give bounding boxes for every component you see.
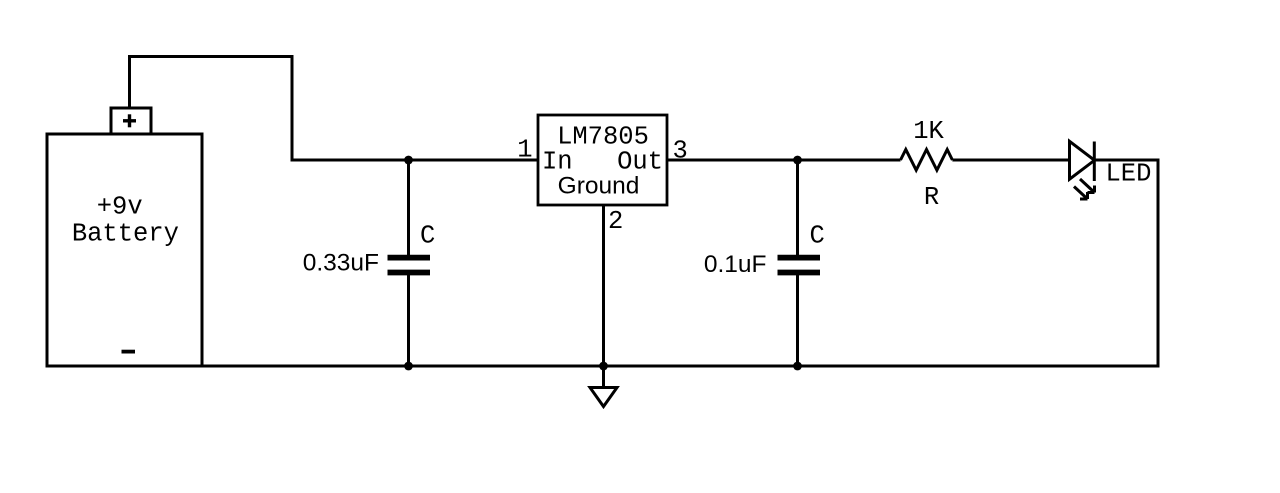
svg-text:2: 2 (608, 207, 623, 236)
svg-text:C: C (810, 222, 825, 251)
svg-text:1: 1 (517, 136, 532, 165)
svg-text:Battery: Battery (72, 220, 179, 249)
svg-text:0.1uF: 0.1uF (704, 251, 767, 278)
svg-text:0.33uF: 0.33uF (303, 250, 379, 277)
svg-text:LED: LED (1106, 160, 1152, 189)
svg-text:C: C (420, 222, 435, 251)
svg-text:1K: 1K (913, 117, 944, 146)
svg-text:Ground: Ground (558, 173, 640, 200)
svg-text:+9v: +9v (97, 193, 143, 222)
svg-text:R: R (924, 183, 939, 212)
svg-text:3: 3 (673, 137, 688, 166)
